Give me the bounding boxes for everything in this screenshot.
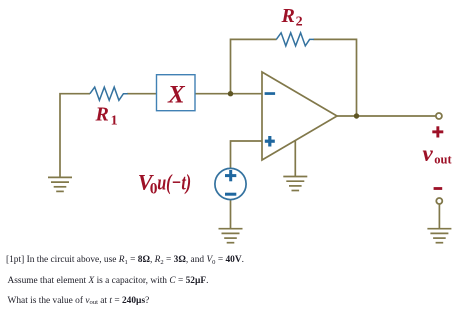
svg-text:R1: R1 [95, 104, 118, 129]
svg-text:u(−t): u(−t) [157, 170, 191, 195]
svg-text:v: v [423, 141, 434, 166]
svg-text:X: X [167, 81, 186, 108]
svg-text:out: out [434, 152, 452, 166]
svg-text:R2: R2 [281, 5, 303, 30]
